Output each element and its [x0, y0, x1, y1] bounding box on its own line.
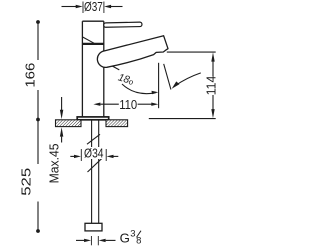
dimension 114 vertical line with arrows [211, 52, 214, 118]
dimension G 3/8 [76, 236, 116, 245]
extension line from spout tip [167, 51, 216, 53]
supply shank left line [91, 120, 93, 223]
svg-text:166: 166 [24, 63, 38, 88]
max 45 down arrow above deck [60, 97, 63, 119]
supply shank right line [98, 120, 100, 223]
svg-text:Ø37: Ø37 [84, 0, 103, 14]
vertical stream line [158, 63, 160, 108]
mounting flange [77, 117, 109, 120]
18 degree leader short line [112, 66, 119, 70]
svg-text:3: 3 [130, 229, 135, 240]
faucet body [82, 21, 103, 117]
break slash lower [88, 158, 103, 172]
text G 3/8 [120, 229, 142, 247]
lever rod [104, 22, 142, 27]
dimension diameter 37: left arrow [62, 2, 84, 14]
svg-text:G: G [120, 231, 130, 246]
counter deck left hatched [56, 120, 82, 127]
counter deck right hatched [106, 120, 128, 127]
dimension diameter 34 [70, 149, 118, 161]
18 degree leader arc to vertical stream line [122, 84, 158, 94]
cap diagonal line [82, 37, 94, 43]
curved arrow toward angled stream line [172, 73, 201, 89]
svg-text:525: 525 [20, 168, 34, 196]
dimension diameter 37: right arrow [104, 2, 123, 14]
break slash upper [87, 134, 100, 144]
cartridge cap bottom line [82, 43, 103, 45]
svg-text:Max.45: Max.45 [48, 143, 62, 183]
spout [97, 36, 168, 68]
svg-text:Ø34: Ø34 [84, 146, 104, 160]
dimension line 166/525 with dots [36, 20, 40, 233]
svg-text:114: 114 [204, 76, 218, 96]
svg-text:110: 110 [119, 98, 137, 112]
max 45 up arrow below deck [60, 127, 63, 142]
coupling nut [85, 223, 102, 231]
svg-text:8: 8 [136, 235, 141, 246]
dimension diameter 34: white mask [84, 147, 105, 159]
angled stream line [164, 64, 171, 90]
dimension 110: left arrowhead at faucet axis [93, 103, 158, 106]
extension line at counter level right [149, 118, 216, 120]
